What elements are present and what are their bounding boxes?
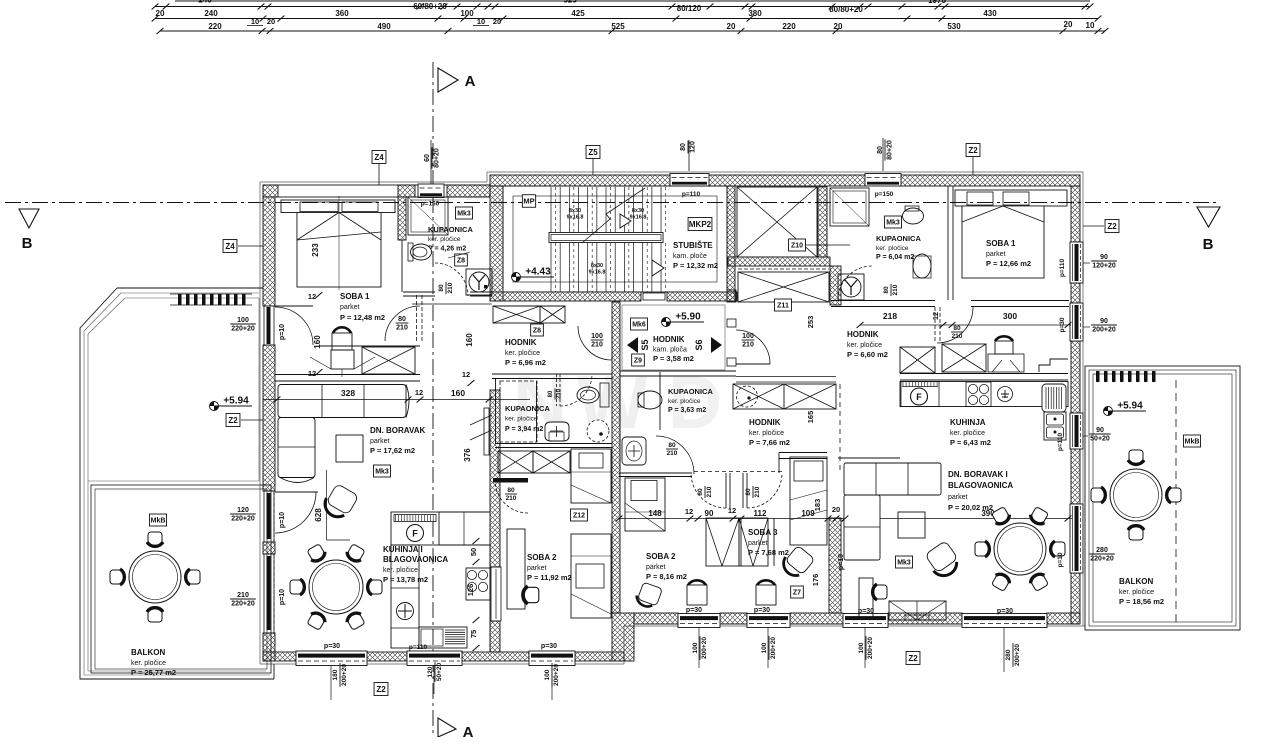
wall left of staircase — [490, 186, 503, 301]
svg-text:100: 100 — [742, 333, 754, 340]
svg-text:183: 183 — [813, 499, 822, 512]
wall top band of staircase and right apartment — [490, 175, 673, 186]
washing machine circle Y left apartment — [466, 269, 492, 295]
wall right of soba3 / left of right-apartment living — [829, 518, 841, 613]
staircase room outline — [503, 186, 727, 292]
hodnik middle bottom dashed line and door leaves — [694, 471, 784, 473]
chair SOBA2 first — [523, 586, 539, 604]
wall segment between soba2mid and soba3 — [740, 518, 742, 566]
svg-text:Z2: Z2 — [908, 654, 918, 663]
svg-text:12: 12 — [415, 388, 423, 397]
svg-text:ker. pločice: ker. pločice — [131, 660, 166, 667]
svg-text:100: 100 — [591, 333, 603, 340]
svg-text:80/80+20: 80/80+20 — [829, 5, 863, 14]
svg-text:P = 6,60 m2: P = 6,60 m2 — [847, 350, 888, 359]
svg-text:525: 525 — [563, 0, 577, 5]
svg-text:SOBA 1: SOBA 1 — [340, 292, 370, 301]
wall right of elevator shaft — [818, 187, 827, 257]
svg-text:80: 80 — [883, 286, 890, 294]
svg-text:DN. BORAVAK I: DN. BORAVAK I — [948, 470, 1008, 479]
svg-text:P = 12,66 m2: P = 12,66 m2 — [986, 259, 1031, 268]
dining table right apartment — [994, 523, 1046, 575]
svg-text:20: 20 — [267, 17, 275, 26]
svg-text:p=150: p=150 — [875, 191, 894, 198]
svg-text:MkB: MkB — [1185, 439, 1200, 446]
bed 1 SOBA2 first — [571, 449, 611, 503]
svg-text:525: 525 — [611, 22, 625, 31]
svg-text:B: B — [22, 235, 33, 252]
stove right of kitchen — [466, 568, 490, 600]
bathroom bottom wall and door — [403, 291, 435, 293]
kitchen counter right apartment — [900, 382, 1068, 407]
svg-text:+5.94: +5.94 — [1117, 401, 1143, 412]
svg-text:220: 220 — [208, 22, 222, 31]
svg-text:200+20: 200+20 — [770, 637, 777, 659]
svg-text:120: 120 — [237, 507, 249, 514]
wall between left apartment and middle rooms — [612, 302, 620, 613]
label MkB right balcony — [1183, 435, 1200, 447]
svg-text:KUHINJA I: KUHINJA I — [383, 545, 423, 554]
partition line dining — [326, 470, 328, 540]
svg-text:210: 210 — [237, 592, 249, 599]
svg-text:530: 530 — [947, 22, 961, 31]
svg-text:p=110: p=110 — [1059, 258, 1066, 277]
svg-text:MKP2: MKP2 — [689, 220, 712, 229]
washing machine bathroom A — [587, 420, 609, 442]
dim line living 328/12/160 — [263, 399, 530, 401]
balcony table left — [129, 551, 181, 603]
left balcony inner rect — [91, 485, 271, 673]
svg-text:90: 90 — [1100, 318, 1108, 325]
svg-text:200+20: 200+20 — [553, 664, 560, 686]
svg-text:MP: MP — [523, 197, 534, 206]
svg-text:P = 18,56 m2: P = 18,56 m2 — [1119, 597, 1164, 606]
svg-text:p=30: p=30 — [324, 643, 340, 650]
door jambs middle entry — [727, 319, 736, 327]
svg-text:240: 240 — [198, 0, 212, 5]
svg-text:+5.90: +5.90 — [675, 312, 701, 323]
wall between SOBA1 and living room — [275, 374, 420, 376]
label Z2 bottom left — [374, 683, 388, 696]
svg-text:Z4: Z4 — [374, 153, 384, 162]
svg-text:8x30: 8x30 — [591, 263, 603, 269]
svg-text:10: 10 — [251, 17, 259, 26]
label Z12 — [570, 509, 587, 521]
svg-text:ker. pločice: ker. pločice — [1119, 589, 1154, 596]
wall bottom of staircase block — [490, 292, 641, 301]
window bottom soba2 (100/200+20) — [678, 614, 720, 628]
label Z10 leader — [775, 230, 792, 247]
wall right of staircase — [727, 186, 735, 301]
svg-text:12: 12 — [931, 312, 940, 320]
hatch block above middle entry door — [727, 290, 736, 302]
svg-text:210: 210 — [506, 495, 517, 502]
svg-text:p=10: p=10 — [279, 512, 286, 528]
svg-text:p=30: p=30 — [754, 607, 770, 614]
tv cabinet right apartment bottom — [889, 601, 946, 620]
svg-text:parket: parket — [948, 494, 968, 501]
staircase up direction line — [582, 188, 645, 243]
svg-text:B: B — [1203, 236, 1214, 253]
svg-text:kam. ploče: kam. ploče — [673, 253, 707, 260]
bed SOBA3 — [790, 457, 827, 545]
svg-text:Z2: Z2 — [1107, 222, 1117, 231]
svg-text:Z8: Z8 — [533, 328, 541, 335]
washing machine right bathroom — [838, 274, 864, 300]
svg-text:p=110: p=110 — [1057, 432, 1064, 451]
svg-text:380: 380 — [748, 9, 762, 18]
elevator shaft — [737, 187, 817, 257]
balcony window right wall (p=10) — [1070, 504, 1083, 573]
svg-text:120: 120 — [690, 141, 697, 153]
svg-text:80: 80 — [953, 325, 961, 332]
svg-text:210: 210 — [396, 325, 408, 332]
window bottom right apartment living (p=30) — [962, 614, 1047, 628]
label Z9 — [632, 354, 645, 366]
svg-text:Z5: Z5 — [588, 148, 598, 157]
svg-text:p=10: p=10 — [1057, 552, 1064, 567]
svg-text:300: 300 — [1003, 311, 1017, 321]
door SOBA1 to hallway — [416, 295, 418, 343]
svg-text:Mk6: Mk6 — [632, 322, 646, 329]
wall step block bottom middle — [612, 613, 634, 661]
svg-text:376: 376 — [463, 448, 472, 462]
svg-text:220+20: 220+20 — [1090, 556, 1114, 563]
svg-text:parket: parket — [527, 565, 547, 572]
window 80/120 on top band — [670, 174, 709, 187]
railing ticks right balcony top — [1096, 371, 1100, 382]
desk SOBA2 first — [507, 529, 525, 609]
closet X row top of SOBA2 first — [498, 451, 533, 473]
svg-text:360: 360 — [335, 9, 349, 18]
svg-text:parket: parket — [748, 540, 768, 547]
dim 80/210 rotated bathroom A door — [548, 388, 563, 399]
label Z2 bottom right — [906, 652, 920, 665]
glass partition living to soba2 — [484, 408, 489, 455]
window bottom soba3 (100/200+20) — [747, 614, 790, 628]
level mark +5.94 right — [1104, 407, 1113, 416]
glass pane in wall — [491, 567, 501, 621]
section axis B horizontal centerline — [5, 202, 1220, 204]
svg-text:120+20: 120+20 — [1092, 263, 1116, 270]
svg-text:80: 80 — [745, 488, 752, 496]
svg-text:Z8: Z8 — [457, 258, 465, 265]
svg-text:200+20: 200+20 — [701, 637, 708, 659]
svg-text:P = 8,16 m2: P = 8,16 m2 — [646, 572, 687, 581]
hallway middle apartment outline — [622, 305, 725, 370]
label Z10 — [788, 239, 805, 251]
railing ticks left terrace top — [178, 294, 182, 305]
label Z5 top staircase — [586, 146, 600, 159]
svg-text:220+20: 220+20 — [231, 516, 255, 523]
svg-text:+5.94: +5.94 — [223, 396, 249, 407]
wall below glass pane — [490, 621, 500, 652]
svg-text:12: 12 — [308, 369, 316, 378]
svg-text:SOBA 2: SOBA 2 — [527, 553, 557, 562]
entry door into left apartment hallway — [611, 326, 613, 360]
chair soba3 — [757, 580, 775, 585]
label Z4 top — [372, 151, 386, 164]
svg-text:210: 210 — [591, 342, 603, 349]
svg-text:218: 218 — [883, 311, 897, 321]
svg-text:Z2: Z2 — [376, 685, 386, 694]
svg-text:80: 80 — [398, 316, 406, 323]
svg-text:90: 90 — [705, 509, 714, 518]
svg-text:12: 12 — [728, 506, 736, 515]
svg-text:148: 148 — [648, 509, 662, 518]
chair at desk soba2 middle — [688, 580, 706, 585]
svg-text:parket: parket — [340, 304, 360, 311]
svg-text:8x30: 8x30 — [632, 208, 644, 214]
armchair soba3 — [779, 544, 815, 581]
door arc right bathroom — [838, 266, 872, 300]
bathroom shower left apartment — [408, 197, 448, 235]
svg-text:430: 430 — [983, 9, 997, 18]
svg-text:100: 100 — [858, 642, 865, 653]
svg-text:80+20: 80+20 — [434, 148, 441, 168]
balcony door right wall (p=110) — [1070, 413, 1083, 449]
svg-text:Z4: Z4 — [225, 242, 235, 251]
sink double right apartment — [1044, 412, 1066, 440]
bed double SOBA1 left apartment — [281, 200, 395, 213]
svg-text:HODNIK: HODNIK — [847, 330, 879, 339]
svg-text:60: 60 — [424, 154, 431, 162]
window right wall (90/200+20) — [1070, 303, 1083, 341]
svg-text:80: 80 — [548, 390, 554, 397]
svg-text:280: 280 — [1005, 649, 1012, 660]
svg-text:100: 100 — [460, 9, 474, 18]
svg-text:KUHINJA: KUHINJA — [950, 418, 986, 427]
svg-text:ker. pločice: ker. pločice — [876, 245, 909, 252]
svg-text:p=30: p=30 — [858, 608, 874, 615]
dim marks 80/210 rotated pair — [697, 486, 713, 498]
svg-text:200+20: 200+20 — [867, 637, 874, 659]
svg-text:Z12: Z12 — [573, 513, 585, 520]
svg-text:80+20: 80+20 — [887, 140, 894, 160]
svg-text:STUBIŠTE: STUBIŠTE — [673, 241, 713, 250]
window bottom hodnik right (100/200+20) — [843, 614, 888, 628]
svg-text:P = 13,78 m2: P = 13,78 m2 — [383, 575, 428, 584]
svg-text:P = 17,62 m2: P = 17,62 m2 — [370, 446, 415, 455]
section marker A top — [438, 68, 458, 92]
desk and chair SOBA1 — [333, 327, 351, 333]
door into SOBA2 first — [493, 478, 528, 483]
outer building face line — [260, 182, 1085, 664]
label Mk3 right bath — [884, 216, 901, 228]
wall top of left apartment — [263, 185, 490, 197]
window right wall (90/120+20) — [1070, 242, 1083, 283]
left terrace inner region line — [88, 298, 259, 481]
label Mk3 right living — [895, 556, 912, 568]
svg-text:20: 20 — [727, 22, 736, 31]
sink drainer right apartment — [1042, 384, 1066, 412]
dim line under stairs hallway — [412, 303, 492, 305]
small appliance circle — [998, 387, 1013, 402]
door arc middle entry — [736, 363, 770, 365]
bathroom B bottom wall — [619, 472, 692, 474]
svg-text:176: 176 — [811, 574, 820, 587]
svg-text:10: 10 — [477, 17, 485, 26]
label Z8 small — [455, 254, 468, 266]
stove right apartment — [966, 382, 991, 407]
marker S6 — [711, 337, 722, 353]
wall between right bathroom and soba1 — [947, 186, 949, 300]
side table right sofa — [898, 512, 925, 538]
svg-text:HODNIK: HODNIK — [749, 418, 781, 427]
svg-text:280: 280 — [1096, 547, 1108, 554]
svg-text:A: A — [463, 724, 474, 737]
svg-text:P = 3,94 m2: P = 3,94 m2 — [505, 426, 543, 433]
door arc bathroom B — [656, 436, 694, 474]
svg-text:A: A — [465, 73, 476, 90]
dim 20 tick right — [842, 516, 849, 522]
svg-text:210: 210 — [742, 342, 754, 349]
wall above right kitchen — [900, 373, 1068, 375]
balcony window left wall (210/220+20) — [264, 554, 274, 633]
svg-text:+4.43: +4.43 — [525, 267, 551, 278]
wall bottom of left apartment — [263, 652, 296, 661]
balcony door in left wall (100/220+20) — [264, 306, 274, 345]
svg-text:P = 7,66 m2: P = 7,66 m2 — [749, 438, 790, 447]
svg-text:SOBA 3: SOBA 3 — [748, 528, 778, 537]
svg-text:233: 233 — [311, 243, 320, 257]
wall right exterior of right apartment — [1071, 186, 1080, 242]
svg-text:80/120: 80/120 — [677, 4, 702, 13]
level mark +5.94 left — [210, 402, 219, 411]
counter top strip near soba2 wall — [489, 545, 491, 652]
svg-text:425: 425 — [571, 9, 585, 18]
bathroom A walls — [495, 378, 497, 443]
svg-text:F: F — [916, 392, 922, 402]
svg-text:MkB: MkB — [151, 518, 166, 525]
desk right apartment bottom — [859, 578, 873, 618]
wall left exterior of left apartment — [263, 197, 275, 306]
svg-text:S6: S6 — [694, 339, 704, 350]
svg-text:80: 80 — [877, 146, 884, 154]
svg-text:ker. pločice: ker. pločice — [505, 416, 538, 423]
svg-text:10: 10 — [1086, 21, 1095, 30]
closets bottom of right SOBA1 — [900, 347, 935, 373]
door arc left wall into SOBA1 — [275, 307, 313, 345]
label Z2 left balcony — [226, 414, 240, 427]
svg-text:220+20: 220+20 — [231, 326, 255, 333]
svg-text:KUPAONICA: KUPAONICA — [668, 387, 713, 396]
svg-text:112: 112 — [754, 509, 767, 518]
closet with X in SOBA1 — [362, 347, 415, 374]
svg-text:p=10: p=10 — [838, 554, 845, 570]
section axis A vertical centerline — [432, 62, 434, 737]
svg-text:P = 20,02 m2: P = 20,02 m2 — [948, 503, 993, 512]
svg-text:200+20: 200+20 — [1014, 644, 1021, 666]
label Z7 — [791, 586, 804, 598]
label Mk3 left bath — [455, 207, 472, 219]
svg-text:P = 11,92 m2: P = 11,92 m2 — [527, 573, 572, 582]
svg-text:BALKON: BALKON — [131, 648, 165, 657]
svg-text:KUPAONICA: KUPAONICA — [505, 404, 550, 413]
svg-text:90: 90 — [1100, 254, 1108, 261]
staircase treads upper flight — [550, 187, 552, 232]
svg-text:Mk3: Mk3 — [897, 560, 911, 567]
window bottom-left (180/200+20) — [296, 651, 367, 666]
svg-text:p=30: p=30 — [997, 608, 1013, 615]
svg-text:490: 490 — [377, 22, 391, 31]
svg-text:80: 80 — [668, 442, 676, 449]
svg-text:50+20: 50+20 — [436, 662, 443, 681]
svg-text:P = 6,43 m2: P = 6,43 m2 — [950, 438, 991, 447]
svg-text:9x16.8: 9x16.8 — [589, 270, 606, 276]
svg-text:1975: 1975 — [928, 0, 946, 5]
line above right sofa — [838, 457, 900, 459]
wall between right hodnik and soba1/kupaonica — [831, 300, 935, 302]
dim line 218 300 at right apartment — [860, 324, 1071, 326]
wall under hallway left apartment — [492, 373, 612, 375]
svg-text:160: 160 — [465, 333, 474, 347]
wardrobe V between soba2 and soba3 — [706, 518, 739, 566]
dishwasher hatched — [419, 627, 467, 648]
dashed boundary hodnik C to right apartment — [839, 384, 841, 470]
fridge box with F — [391, 512, 439, 545]
toilet bathroom B — [638, 391, 662, 409]
shaft below elevator — [738, 268, 829, 270]
svg-text:200+20: 200+20 — [341, 664, 348, 686]
door soba1 right — [934, 307, 936, 343]
wall between left apartment living and soba2 column — [490, 390, 500, 567]
svg-text:P = 6,96 m2: P = 6,96 m2 — [505, 358, 546, 367]
svg-text:S5: S5 — [640, 339, 650, 350]
wall above soba3 — [779, 452, 827, 454]
svg-text:160: 160 — [451, 388, 465, 398]
left terrace outer outline — [80, 288, 274, 679]
svg-text:P = 25,77 m2: P = 25,77 m2 — [131, 668, 176, 677]
balcony table right — [1110, 469, 1162, 521]
svg-text:ker. pločice: ker. pločice — [749, 430, 784, 437]
wall between bathrooms — [619, 372, 621, 470]
svg-text:80: 80 — [438, 284, 445, 292]
marker S5 — [627, 337, 638, 353]
staircase treads lower flight — [550, 243, 552, 292]
svg-text:p=30: p=30 — [686, 607, 702, 614]
label Z11 — [774, 299, 791, 311]
svg-text:P = 3,58 m2: P = 3,58 m2 — [653, 354, 694, 363]
svg-text:p=110: p=110 — [682, 191, 701, 198]
svg-text:ker. pločice: ker. pločice — [428, 236, 461, 243]
svg-text:P = 12,48 m2: P = 12,48 m2 — [340, 313, 385, 322]
bed SOBA2 middle — [625, 478, 665, 531]
svg-text:ker. pločice: ker. pločice — [847, 342, 882, 349]
armchair right living — [923, 541, 962, 581]
wall band below elevator — [728, 257, 830, 266]
dimension chain row0 (clipped top) — [175, 0, 1090, 2]
svg-text:20: 20 — [1064, 20, 1073, 29]
dimension chain row2 — [155, 18, 1098, 20]
level mark +5.90 — [662, 318, 671, 327]
svg-text:Z2: Z2 — [228, 416, 238, 425]
shower right apartment bathroom — [830, 188, 869, 226]
svg-text:parket: parket — [646, 564, 666, 571]
svg-text:SOBA 2: SOBA 2 — [646, 552, 676, 561]
svg-text:Z10: Z10 — [791, 243, 803, 250]
cabinet dashed bathroom A — [500, 381, 537, 442]
svg-text:20: 20 — [832, 505, 840, 514]
svg-text:200+20: 200+20 — [1092, 327, 1116, 334]
door in staircase bottom wall — [643, 293, 665, 300]
svg-text:160: 160 — [313, 335, 322, 349]
svg-text:100: 100 — [544, 669, 551, 680]
svg-text:220: 220 — [782, 22, 796, 31]
sink bathroom A — [545, 422, 569, 441]
svg-text:90: 90 — [1096, 427, 1104, 434]
window 60/80+20 on top wall of left apartment — [418, 184, 444, 198]
